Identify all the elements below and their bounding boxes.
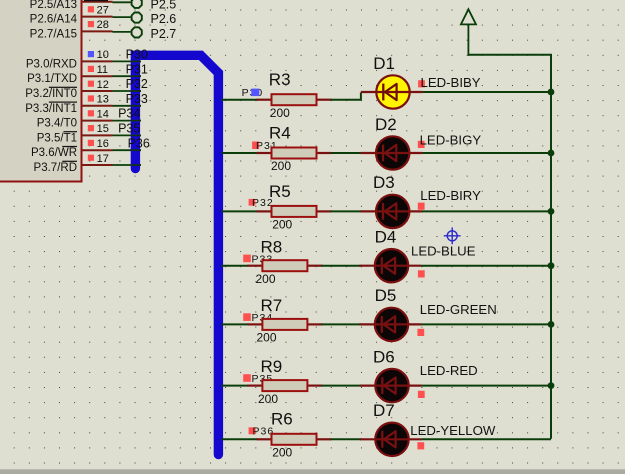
wire pin to bus: [113, 105, 142, 107]
svg-text:D1: D1: [373, 54, 395, 73]
wire pin to bus: [113, 120, 142, 122]
junction node D2 row: [548, 150, 555, 157]
net label P34: [243, 312, 273, 324]
svg-text:11: 11: [97, 64, 108, 76]
svg-text:P3.0/RXD: P3.0/RXD: [26, 58, 77, 70]
wire pin to bus: [113, 75, 142, 77]
wire tips over bus: [131, 60, 141, 62]
svg-text:13: 13: [97, 94, 109, 106]
svg-text:P3.5/T1: P3.5/T1: [37, 132, 77, 144]
wire D5 to rail: [421, 323, 551, 325]
svg-text:P3.1/TXD: P3.1/TXD: [27, 73, 77, 85]
LED D7 LED-YELLOW: [360, 401, 422, 456]
svg-text:R7: R7: [261, 296, 283, 315]
svg-text:P34: P34: [118, 107, 140, 121]
label LED-GREEN: [417, 302, 496, 336]
resistor R8 200 ohm: [247, 237, 322, 286]
svg-text:R6: R6: [271, 409, 293, 428]
svg-text:15: 15: [97, 123, 109, 135]
svg-text:P2.6: P2.6: [151, 12, 177, 26]
svg-text:P3.7/RD: P3.7/RD: [34, 162, 77, 174]
wire R6 to D7: [331, 438, 362, 440]
chip pin P3.3/INT1 row: [25, 94, 112, 115]
terminal P2.7: [113, 27, 177, 41]
wire D6 to rail: [422, 385, 551, 387]
clipped pin number above: [84, 0, 108, 1]
svg-text:P32: P32: [126, 77, 148, 91]
chip pin P3.4/T0 row: [37, 108, 113, 129]
net label P32: [249, 197, 274, 209]
wire bus to R8: [222, 265, 249, 267]
power terminal: [461, 9, 476, 56]
svg-text:LED-YELLOW: LED-YELLOW: [410, 423, 496, 438]
junction node D5 row: [548, 321, 555, 328]
svg-text:R4: R4: [269, 124, 291, 143]
svg-text:14: 14: [97, 108, 109, 120]
svg-text:P3.4/T0: P3.4/T0: [37, 118, 77, 130]
svg-text:R9: R9: [261, 357, 283, 376]
net label P33: [243, 253, 273, 265]
chip pin P2.6/A14 row: [30, 4, 113, 25]
label LED-BIGY: [418, 132, 482, 148]
svg-text:D3: D3: [373, 173, 395, 192]
LED D1 LED-BIBY: [361, 54, 423, 109]
LED D5 LED-GREEN: [359, 286, 421, 341]
wire R7 to D5: [321, 323, 361, 325]
svg-text:200: 200: [271, 159, 291, 173]
svg-text:P2.6/A14: P2.6/A14: [30, 14, 78, 26]
svg-text:P2.7: P2.7: [151, 27, 177, 41]
resistor R3 200 ohm: [257, 70, 332, 120]
svg-text:R5: R5: [269, 182, 291, 201]
wire D2 to rail: [422, 152, 551, 154]
svg-text:16: 16: [97, 138, 109, 150]
wire D1 to rail: [423, 91, 551, 93]
svg-text:R3: R3: [269, 70, 291, 89]
svg-text:P2.7/A15: P2.7/A15: [30, 28, 77, 40]
wire R4 to D2: [331, 152, 363, 154]
label LED-YELLOW: [410, 423, 496, 450]
svg-text:200: 200: [258, 392, 278, 406]
wire pin to bus: [113, 164, 142, 166]
svg-text:27: 27: [97, 4, 109, 16]
svg-text:D4: D4: [375, 228, 397, 247]
svg-text:P35: P35: [118, 122, 140, 136]
svg-text:LED-GREEN: LED-GREEN: [420, 302, 497, 317]
svg-text:200: 200: [256, 272, 276, 286]
svg-text:P36: P36: [128, 136, 150, 150]
junction node D1 row: [548, 89, 555, 96]
svg-text:D2: D2: [375, 115, 397, 134]
bus P3.0-P3.7: [135, 55, 218, 454]
svg-text:17: 17: [97, 153, 109, 165]
wire R5 to D3: [331, 210, 363, 212]
wire pin to bus: [113, 90, 142, 92]
svg-text:LED-BLUE: LED-BLUE: [411, 243, 476, 258]
resistor R5 200 ohm: [257, 182, 332, 232]
wire bus to R7: [222, 323, 249, 325]
svg-text:12: 12: [97, 79, 109, 91]
resistor R6 200 ohm: [257, 409, 332, 459]
svg-text:LED-BIBY: LED-BIBY: [421, 75, 481, 90]
LED D3 LED-BIRY: [361, 173, 423, 228]
net label P36: [249, 425, 275, 437]
junction node D3 row: [548, 208, 555, 215]
wire D4 to rail: [421, 265, 551, 267]
resistor R7 200 ohm: [247, 296, 322, 345]
bottom window edge: [0, 469, 625, 474]
svg-text:LED-BIGY: LED-BIGY: [420, 132, 482, 147]
wire bus to R9: [222, 385, 249, 387]
chip pin P3.6/WR row: [31, 138, 113, 159]
svg-text:R8: R8: [261, 237, 283, 256]
wire R8 to D4: [321, 265, 361, 267]
svg-text:D5: D5: [375, 286, 397, 305]
terminal P2.6: [113, 12, 177, 26]
svg-text:LED-BIRY: LED-BIRY: [420, 188, 481, 203]
svg-text:P33: P33: [126, 92, 148, 106]
label LED-RED: [418, 363, 478, 398]
net label P35: [243, 373, 273, 385]
junction node D6 row: [548, 382, 555, 389]
wire bus to R5: [222, 210, 258, 212]
svg-text:LED-RED: LED-RED: [420, 363, 478, 378]
junction node D4 row: [548, 262, 555, 269]
svg-text:D6: D6: [373, 347, 395, 366]
microcontroller U1 (port P2/P3 edge): [0, 0, 82, 182]
wire D7 to rail: [422, 438, 551, 440]
chip pin P3.2/INT0 row: [25, 79, 112, 100]
svg-text:10: 10: [97, 49, 109, 61]
chip pin P3.5/T1 row: [37, 123, 113, 144]
wire bus to R6: [222, 438, 258, 440]
wire bus to R3: [222, 99, 258, 101]
svg-text:P3.2/INT0: P3.2/INT0: [25, 88, 77, 100]
terminal P2.5: [113, 0, 177, 11]
chip pin P3.7/RD row: [34, 153, 113, 174]
wire D3 to rail: [422, 210, 551, 212]
label LED-BLUE: [411, 243, 476, 277]
label LED-BIBY: [418, 75, 481, 90]
rail wire to power: [550, 55, 552, 439]
LED D4 LED-BLUE: [359, 228, 421, 283]
svg-text:P3.6/WR: P3.6/WR: [31, 147, 77, 159]
wire R3 to D1: [331, 93, 361, 100]
svg-text:200: 200: [270, 106, 290, 120]
wire pin to bus: [113, 60, 142, 62]
resistor R9 200 ohm: [247, 357, 322, 406]
svg-text:P2.5: P2.5: [151, 0, 177, 11]
label LED-BIRY: [418, 188, 481, 210]
chip pin P3.1/TXD row: [27, 64, 112, 85]
net label P31: [252, 140, 278, 152]
net label P30: [242, 87, 264, 99]
svg-text:P30: P30: [126, 48, 148, 62]
origin marker: [444, 227, 461, 244]
LED D2 LED-BIGY: [361, 115, 423, 170]
svg-text:200: 200: [272, 218, 292, 232]
svg-text:D7: D7: [373, 401, 395, 420]
svg-text:P3.3/INT1: P3.3/INT1: [25, 103, 77, 115]
chip pin P2.5/A13 row: [30, 0, 113, 11]
svg-text:28: 28: [97, 19, 109, 31]
svg-text:200: 200: [257, 331, 277, 345]
wire pin to bus: [113, 134, 142, 136]
LED D6 LED-RED: [360, 347, 422, 402]
chip pin P3.0/RXD row: [26, 49, 113, 70]
wire pin to bus: [113, 149, 142, 151]
resistor R4 200 ohm: [257, 124, 332, 174]
wire bus to R4: [222, 152, 258, 154]
wire R9 to D6: [321, 385, 361, 387]
svg-text:P2.5/A13: P2.5/A13: [30, 0, 77, 11]
svg-text:P31: P31: [126, 62, 148, 76]
svg-text:200: 200: [272, 446, 292, 460]
chip pin P2.7/A15 row: [30, 19, 113, 40]
